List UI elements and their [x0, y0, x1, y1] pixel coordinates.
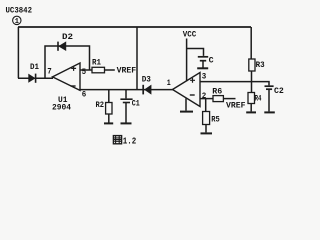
- wire R5 to ground: [205, 125, 207, 133]
- wire left rail: [17, 27, 19, 78]
- svg-text:VREF: VREF: [226, 101, 246, 110]
- svg-text:1.2: 1.2: [123, 137, 137, 147]
- svg-text:VREF: VREF: [117, 67, 137, 76]
- resistor R1: [92, 58, 105, 72]
- wire R2 to ground: [108, 114, 110, 123]
- resistor R6: [212, 87, 223, 101]
- svg-text:R4: R4: [255, 95, 262, 104]
- ground C2: [264, 111, 275, 113]
- wire pin3 node to R3 R4 C2: [200, 82, 269, 86]
- svg-text:1: 1: [167, 79, 171, 88]
- resistor R3: [249, 59, 265, 71]
- wire D1 input: [18, 77, 53, 79]
- wire rail drop junction: [136, 27, 138, 90]
- svg-text:C: C: [209, 56, 214, 65]
- svg-text:C2: C2: [274, 87, 284, 96]
- svg-text:R6: R6: [212, 87, 222, 96]
- caption figure 1.2: [113, 136, 136, 147]
- svg-text:1: 1: [15, 18, 19, 26]
- diode D2: [58, 33, 73, 51]
- capacitor C1: [120, 90, 140, 109]
- resistor R5: [203, 112, 220, 125]
- svg-text:R2: R2: [96, 101, 105, 110]
- wire R3 to node: [251, 71, 253, 82]
- ground R5: [201, 132, 213, 134]
- wire R2 stub: [108, 90, 110, 103]
- wire D2 feedback loop: [45, 46, 90, 78]
- wire pin2 to R6: [200, 98, 213, 100]
- wire top rail: [18, 26, 251, 28]
- wire C to ground: [202, 62, 204, 68]
- svg-text:D3: D3: [142, 76, 151, 85]
- svg-text:R5: R5: [211, 115, 220, 124]
- svg-text:R1: R1: [92, 58, 101, 67]
- svg-text:UC3842: UC3842: [6, 6, 33, 16]
- node 1 circled pin: [13, 16, 21, 26]
- wire branch to C: [187, 49, 204, 56]
- wire R5 stub: [205, 99, 207, 112]
- svg-text:D1: D1: [30, 63, 39, 72]
- diode D3: [142, 76, 151, 95]
- diode D1: [29, 63, 40, 83]
- svg-text:3: 3: [202, 73, 207, 82]
- svg-text:2904: 2904: [52, 103, 71, 112]
- ground op-amp U2: [180, 111, 193, 113]
- wire VCC supply stub: [186, 39, 188, 82]
- svg-text:5: 5: [82, 68, 87, 77]
- op-amp U1 minus input: [71, 85, 76, 87]
- ground R4: [246, 111, 256, 113]
- wire pin5 to R1: [80, 69, 92, 71]
- resistor R4: [248, 93, 262, 104]
- ground R2: [104, 122, 113, 124]
- wire rail to R3: [250, 27, 252, 59]
- wire op-amp U2 ground stub: [185, 98, 187, 110]
- svg-text:R3: R3: [256, 61, 265, 70]
- svg-text:D2: D2: [62, 33, 73, 42]
- wire C1 to ground: [125, 103, 127, 123]
- ground C: [197, 67, 208, 69]
- op-amp U1 plus input: [71, 66, 76, 71]
- op-amp U2 minus input: [190, 94, 195, 96]
- op-amp U2 triangle: [173, 73, 201, 107]
- op-amp U2 plus input: [190, 78, 195, 83]
- capacitor C: [198, 56, 214, 65]
- svg-text:C1: C1: [132, 99, 140, 108]
- wire node to R4: [251, 82, 253, 93]
- resistor R2: [96, 101, 113, 114]
- svg-text:VCC: VCC: [183, 31, 197, 40]
- wire R4 to ground: [250, 104, 252, 112]
- wire R6 to VREF net: [223, 98, 235, 100]
- wire C2 to ground: [268, 90, 270, 111]
- wire main mid net pin6 to pin1: [80, 89, 173, 91]
- ground C1: [121, 122, 132, 124]
- svg-text:6: 6: [82, 90, 87, 99]
- capacitor C2: [265, 86, 284, 96]
- op-amp U1 (2904) triangle: [53, 63, 81, 90]
- wire R1 to VREF: [105, 69, 115, 71]
- svg-text:7: 7: [47, 67, 52, 76]
